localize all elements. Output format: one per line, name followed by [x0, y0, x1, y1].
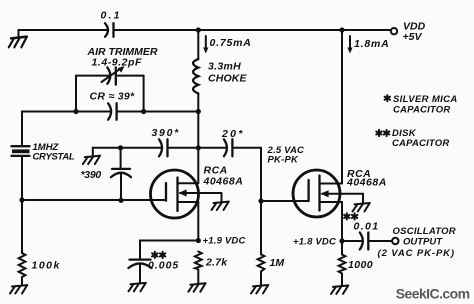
label 2.5 VAC PK-PK: [267, 145, 305, 165]
svg-text:0.01: 0.01: [354, 220, 380, 232]
transistor Q2 RCA 40468A: [293, 168, 387, 217]
capacitor air trimmer 1.4-9.2pF: [87, 46, 158, 85]
wire grounded line left end: [92, 148, 94, 156]
svg-text:+1.8 VDC: +1.8 VDC: [293, 236, 336, 247]
svg-text:0.75mA: 0.75mA: [210, 37, 252, 49]
wire trimmer box left vertical: [75, 76, 77, 112]
legend disk: [376, 128, 449, 149]
wire Q2 substrate to ground: [362, 194, 364, 203]
transistor Q1 RCA 40468A: [151, 164, 244, 218]
node Q2 source junction: [293, 236, 345, 247]
capacitor 20 series: [221, 128, 245, 157]
svg-text:CR ≈ 39*: CR ≈ 39*: [90, 90, 136, 102]
svg-text:+5V: +5V: [403, 31, 423, 43]
wire choke drain line top: [197, 30, 199, 59]
legend silver mica: [385, 94, 458, 116]
wire gate line Q1: [22, 199, 166, 201]
wire CR line right: [118, 111, 198, 113]
svg-text:OSCILLATOR: OSCILLATOR: [393, 226, 456, 237]
node choke line / 390-20 line: [196, 145, 201, 150]
node crystal / gate line / 100k: [19, 197, 24, 202]
wire grounded line seg1: [93, 147, 162, 149]
node Q1 source junction: [196, 235, 246, 246]
svg-text:CAPACITOR: CAPACITOR: [393, 104, 450, 115]
wire top rail left of C 0.1: [19, 29, 109, 31]
resistor 1M: [258, 201, 285, 285]
watermark SeekIC.com: [396, 285, 470, 301]
node B (top rail / Q2 drain): [339, 27, 344, 32]
wire output line right: [370, 240, 392, 242]
capacitor 0.01 output: [344, 213, 379, 249]
node A (top rail / choke): [196, 27, 201, 32]
capacitor 0.005 disk: [129, 252, 180, 283]
svg-text:0.1: 0.1: [101, 9, 122, 21]
crystal 1MHZ: [12, 112, 75, 201]
svg-text:SILVER MICA: SILVER MICA: [393, 94, 458, 105]
svg-text:1.8mA: 1.8mA: [354, 38, 390, 50]
svg-text:(2 VAC PK-PK): (2 VAC PK-PK): [378, 248, 456, 259]
svg-text:PK-PK: PK-PK: [268, 154, 299, 165]
svg-text:0.005: 0.005: [148, 259, 179, 271]
ground below 0.005: [129, 283, 146, 291]
terminal VDD +5V: [391, 21, 426, 43]
wire grounded line seg3 to Q2 gate drop: [234, 148, 261, 201]
svg-text:+1.9 VDC: +1.9 VDC: [203, 235, 246, 246]
resistor 2.7k: [195, 252, 228, 284]
arrow 1.8mA: [347, 36, 389, 54]
svg-text:OUTPUT: OUTPUT: [403, 236, 443, 247]
ground top-left: [9, 30, 27, 47]
resistor 1000: [339, 241, 373, 285]
svg-text:20*: 20*: [221, 128, 245, 140]
svg-text:CHOKE: CHOKE: [208, 73, 248, 85]
svg-text:3.3mH: 3.3mH: [208, 61, 241, 73]
wire Q1 source down: [197, 202, 199, 241]
ground below 2.7k: [188, 283, 205, 291]
svg-text:100k: 100k: [32, 259, 61, 271]
node trimmer box right: [141, 109, 146, 114]
svg-text:CRYSTAL: CRYSTAL: [33, 152, 75, 163]
svg-text:RCA: RCA: [204, 164, 228, 176]
svg-text:*390: *390: [81, 169, 102, 181]
capacitor 0.1: [101, 9, 122, 37]
wire choke bottom to Q1 drain: [197, 93, 199, 183]
wire output line left: [342, 240, 363, 242]
svg-text:40468A: 40468A: [203, 176, 244, 188]
ground at 390-20 line left: [83, 156, 100, 164]
svg-text:SeekIC.com: SeekIC.com: [396, 285, 470, 301]
capacitor CR 39: [90, 90, 136, 119]
wire trimmer box right vertical: [143, 76, 145, 112]
svg-text:390*: 390*: [152, 127, 180, 139]
ground Q2 substrate: [353, 203, 370, 211]
node trimmer box left: [73, 109, 78, 114]
svg-text:1.4-9.2pF: 1.4-9.2pF: [92, 56, 143, 68]
wire trimmer branch right: [118, 75, 144, 77]
wire Q2 source down: [341, 202, 343, 241]
node 390 shunt bottom: [118, 198, 123, 203]
ground below 100k: [10, 285, 27, 293]
wire trimmer branch left: [76, 75, 110, 77]
svg-text:1M: 1M: [270, 257, 285, 269]
capacitor 390 shunt: [81, 148, 132, 201]
terminal oscillator output: [378, 226, 456, 259]
wire top rail right of C 0.1: [115, 29, 391, 31]
inductor 3.3mH choke: [193, 59, 247, 93]
node 390 shunt top: [118, 145, 123, 150]
arrow 0.75mA: [203, 36, 251, 54]
svg-text:CAPACITOR: CAPACITOR: [392, 138, 449, 149]
wire to 0.005 cap: [140, 241, 198, 260]
ground Q1 substrate: [212, 202, 229, 210]
node Q2 gate / 1M: [258, 198, 263, 203]
node choke / CR line: [196, 109, 201, 114]
wire Q2 drain up: [341, 30, 343, 184]
wire Q1 substrate to ground: [221, 193, 223, 202]
wire CR line left: [22, 111, 111, 113]
ground below 1M: [251, 285, 268, 293]
capacitor 390 series: [152, 127, 180, 156]
wire grounded line seg2: [169, 147, 227, 149]
ground below 1000: [331, 286, 348, 294]
svg-text:40468A: 40468A: [346, 176, 387, 188]
svg-text:1000: 1000: [348, 259, 373, 271]
svg-text:2.7k: 2.7k: [205, 257, 228, 269]
wire gate line Q2: [261, 200, 309, 202]
resistor 100k: [19, 200, 61, 285]
